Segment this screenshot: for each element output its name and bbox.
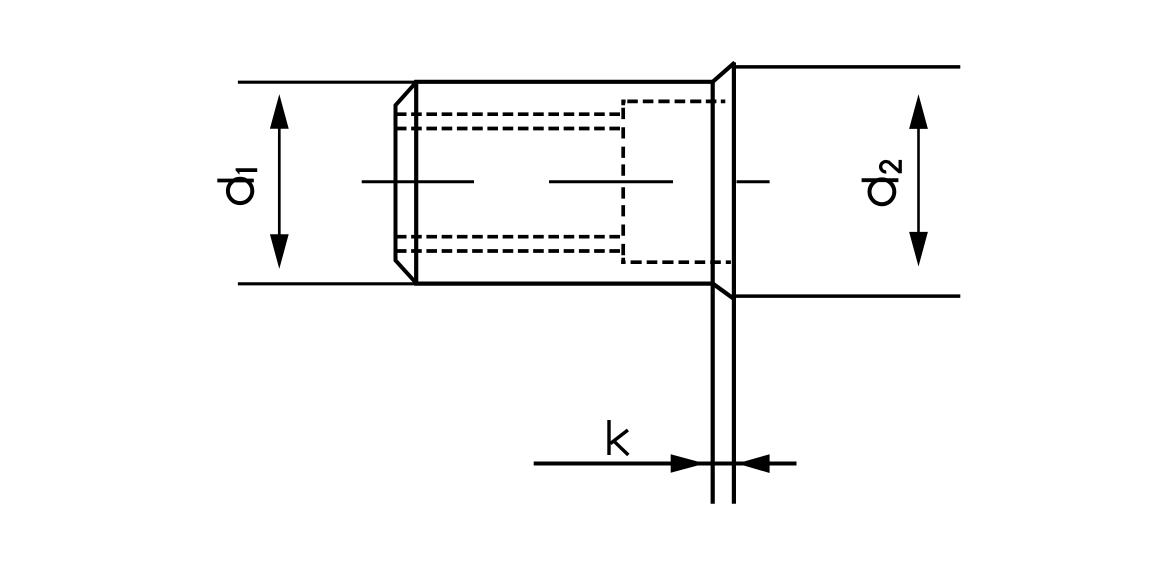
chamfer outline left end [396, 82, 417, 284]
head right face / k extension line right [732, 62, 736, 503]
counterbore dashed step vertical [621, 100, 625, 262]
d2 arrowhead bottom [909, 232, 928, 267]
body left face line [414, 80, 418, 286]
thread dashed line upper-outer [396, 112, 621, 116]
centerline segment middle [549, 180, 673, 183]
d1 arrowhead bottom [270, 234, 289, 269]
d2 dimension arrow stem [917, 120, 920, 240]
thread dashed line upper-inner [396, 127, 621, 131]
k arrowhead left (pointing right) [671, 454, 705, 473]
d2 arrowhead top [909, 94, 928, 129]
boundary line bottom-left (d1 extent) [238, 282, 417, 285]
counterbore dashed bottom line [621, 260, 731, 264]
boundary line top-right (d2 extent) [736, 65, 961, 69]
thread dashed line lower-outer [396, 249, 621, 253]
boundary line bottom-right (d2 extent) [736, 294, 961, 298]
head flare bottom slant [712, 283, 735, 300]
counterbore dashed top line [621, 100, 725, 104]
body bottom edge [414, 282, 712, 286]
thread dashed line lower-inner [396, 235, 621, 239]
centerline segment left [362, 180, 474, 183]
label d1 (rotated d with subscript 1) [217, 170, 257, 203]
d1 arrowhead top [270, 94, 289, 129]
label d2 (rotated d with subscript 2) [862, 160, 901, 204]
d1 dimension arrow stem [278, 120, 281, 242]
centerline segment right [737, 180, 770, 183]
k dimension line [534, 462, 797, 466]
body top edge [414, 80, 712, 84]
boundary line top-left (d1 extent) [238, 81, 417, 84]
k arrowhead right (pointing left) [737, 454, 770, 473]
body right face / k extension line left [711, 82, 715, 504]
label k [609, 420, 628, 455]
head flare top slant [712, 62, 735, 82]
